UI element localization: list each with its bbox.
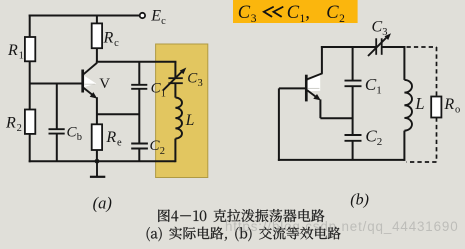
svg-text:L: L — [414, 94, 424, 113]
wire: (b) base lead — [279, 87, 305, 89]
wire: C1 upper lead — [138, 62, 140, 85]
ground symbol — [96, 161, 98, 177]
capacitor C1 (b) — [345, 80, 362, 82]
resistor Re — [92, 124, 102, 150]
svg-text:2: 2 — [160, 146, 165, 157]
arrow across C3 (a) — [163, 70, 183, 90]
resistor R2 — [25, 110, 35, 134]
wire: Rc upper lead — [96, 16, 98, 24]
formula box C3 << C1, C2 — [233, 0, 358, 23]
transistor (b) collector stroke — [307, 73, 322, 79]
svg-text:https://blog.csdn.net/qq_44431: https://blog.csdn.net/qq_44431690 — [225, 219, 459, 234]
wire: (a) bottom ground rail — [29, 160, 176, 162]
wire: collector horizontal to C1/C3 — [96, 61, 176, 63]
transistor (b) base bar — [305, 75, 308, 102]
wire: Rc lower lead to collector node — [96, 48, 98, 63]
caption line 2: (a) 实际电路, (b) 交流等效电路 — [147, 227, 341, 242]
svg-text:L: L — [185, 112, 195, 129]
svg-text:V: V — [99, 76, 110, 92]
capacitor C3 (a) variable — [168, 77, 182, 79]
svg-text:2: 2 — [377, 136, 383, 148]
svg-text:C: C — [326, 3, 339, 23]
wire: C1-C2 middle segment — [138, 89, 140, 144]
transistor V wedge divider line — [85, 83, 96, 85]
transistor (b) white wedge — [308, 75, 321, 92]
resistor R1 — [25, 37, 35, 61]
wire: (b) emitter down — [319, 99, 321, 118]
svg-text:C: C — [287, 3, 300, 23]
svg-text:R: R — [443, 96, 454, 113]
svg-text:c: c — [161, 16, 166, 27]
highlight box around C3 and L branch — [156, 44, 208, 178]
wire: (b) right vertical lower — [403, 131, 405, 161]
svg-text:2: 2 — [339, 13, 345, 25]
capacitor C2 (a) — [131, 143, 148, 145]
wire: inductor lower lead — [174, 139, 176, 163]
wire: emitter tap to capacitor divider — [97, 113, 139, 115]
wire: Re lower lead — [96, 150, 98, 161]
svg-text:c: c — [114, 38, 119, 49]
inductor L (b) — [404, 80, 412, 131]
formula much-less-than symbol — [263, 7, 283, 17]
capacitor C3 (b) variable — [375, 38, 377, 55]
wire: C2 lower lead — [138, 149, 140, 162]
svg-text:E: E — [150, 7, 161, 24]
svg-text:C: C — [365, 126, 377, 145]
wire: (b) bottom rail — [278, 159, 405, 161]
svg-text:3: 3 — [198, 78, 203, 89]
wire: (b) divider lower lead — [352, 141, 354, 160]
terminal Ec open circle — [140, 13, 145, 18]
svg-text:e: e — [117, 138, 122, 149]
svg-text:R: R — [105, 129, 116, 146]
transistor V emitter stroke with arrow — [84, 88, 95, 96]
svg-text:3: 3 — [382, 27, 387, 38]
svg-text:2: 2 — [17, 123, 22, 134]
capacitor C2 (b) — [345, 134, 362, 136]
svg-text:1: 1 — [19, 51, 24, 62]
svg-text:R: R — [103, 29, 114, 46]
dashed wire: bottom back to circuit — [407, 161, 437, 163]
transistor (b) emitter stroke with arrow — [307, 90, 317, 98]
resistor Ro — [431, 97, 441, 118]
caption line 1: 图4-10 克拉泼振荡器电路 — [158, 209, 324, 222]
transistor (b) wedge divider line — [308, 87, 320, 89]
transistor V white wedge — [84, 76, 96, 87]
svg-text:C: C — [372, 19, 383, 36]
svg-text:R: R — [5, 115, 16, 132]
transistor V base bar — [81, 70, 84, 93]
dashed wire: top to Ro — [407, 46, 437, 48]
wire: Cb upper lead — [56, 84, 58, 130]
junction dot at ground rail — [95, 159, 100, 164]
dashed wire: Ro upper lead — [436, 47, 438, 97]
svg-text:(a): (a) — [93, 193, 112, 212]
wire: Cb lower lead — [56, 134, 58, 162]
svg-text:b: b — [77, 132, 82, 143]
wire: (b) base down to ground rail — [278, 88, 280, 160]
svg-text:C: C — [238, 3, 251, 23]
svg-text:o: o — [455, 105, 460, 116]
wire: (b) emitter tap to divider — [320, 117, 352, 119]
svg-text:1: 1 — [376, 85, 382, 97]
wire: (b) top wire left of C3 — [321, 46, 376, 48]
wire: (b) divider middle segment — [352, 86, 354, 135]
svg-text:R: R — [7, 42, 18, 59]
wire: base wire from divider to transistor — [30, 83, 82, 85]
wire: (a) top supply rail — [29, 15, 140, 17]
wire: C3 branch upper lead — [174, 62, 176, 78]
wire: (b) right vertical upper — [403, 46, 405, 80]
arrow across C3 (b) — [368, 36, 388, 56]
inductor L (a) — [175, 98, 182, 139]
svg-text:,: , — [305, 3, 310, 23]
capacitor Cb — [49, 128, 65, 130]
wire: C3 to inductor — [174, 83, 176, 97]
svg-text:C: C — [365, 75, 377, 94]
svg-text:(b): (b) — [350, 191, 369, 208]
wire: (b) top wire right of C3 — [382, 46, 406, 48]
wire: (b) divider upper lead — [352, 47, 354, 81]
svg-text:3: 3 — [251, 13, 257, 25]
wire: emitter vertical — [96, 97, 98, 124]
transistor V collector stroke — [84, 63, 98, 75]
wire: (a) left vertical (R1/R2 branch) — [29, 15, 31, 163]
capacitor C1 (a) — [131, 84, 147, 86]
resistor Rc — [92, 23, 102, 48]
dashed wire: Ro lower lead — [436, 118, 438, 163]
wire: (b) left vertical to collector — [321, 46, 323, 74]
